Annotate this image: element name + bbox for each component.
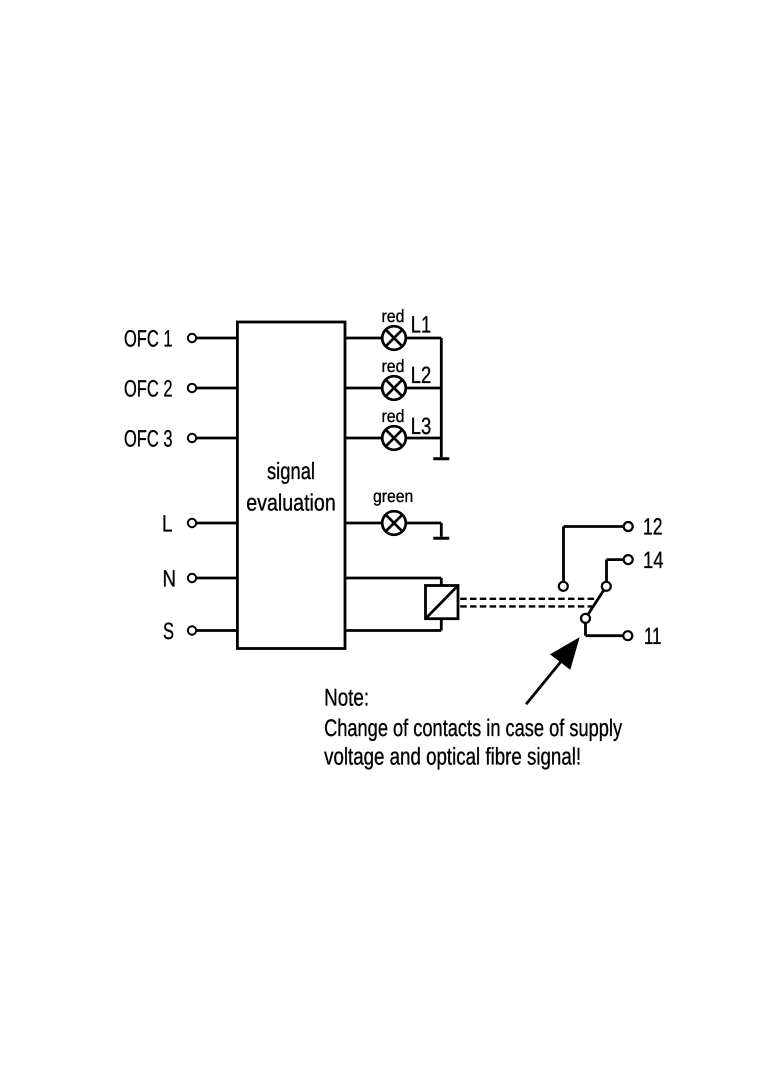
svg-text:red: red <box>382 406 405 426</box>
svg-text:N: N <box>163 566 177 592</box>
svg-text:voltage and optical fibre sign: voltage and optical fibre signal! <box>324 744 581 771</box>
svg-text:L: L <box>162 511 173 537</box>
svg-text:Note:: Note: <box>324 684 369 711</box>
svg-text:red: red <box>382 306 405 326</box>
svg-text:OFC 2: OFC 2 <box>124 376 173 402</box>
svg-text:OFC 3: OFC 3 <box>124 426 173 452</box>
svg-text:L1: L1 <box>411 312 432 338</box>
svg-text:evaluation: evaluation <box>246 490 336 516</box>
svg-text:red: red <box>382 356 405 376</box>
svg-text:L2: L2 <box>411 362 432 388</box>
svg-text:signal: signal <box>267 458 315 484</box>
svg-text:OFC 1: OFC 1 <box>124 326 173 352</box>
svg-text:14: 14 <box>643 547 664 573</box>
svg-text:L3: L3 <box>411 413 432 439</box>
svg-text:12: 12 <box>643 514 663 540</box>
svg-text:S: S <box>163 618 174 644</box>
svg-text:green: green <box>373 486 413 506</box>
svg-text:Change of contacts in case of: Change of contacts in case of supply <box>324 715 622 742</box>
svg-text:11: 11 <box>644 623 661 649</box>
